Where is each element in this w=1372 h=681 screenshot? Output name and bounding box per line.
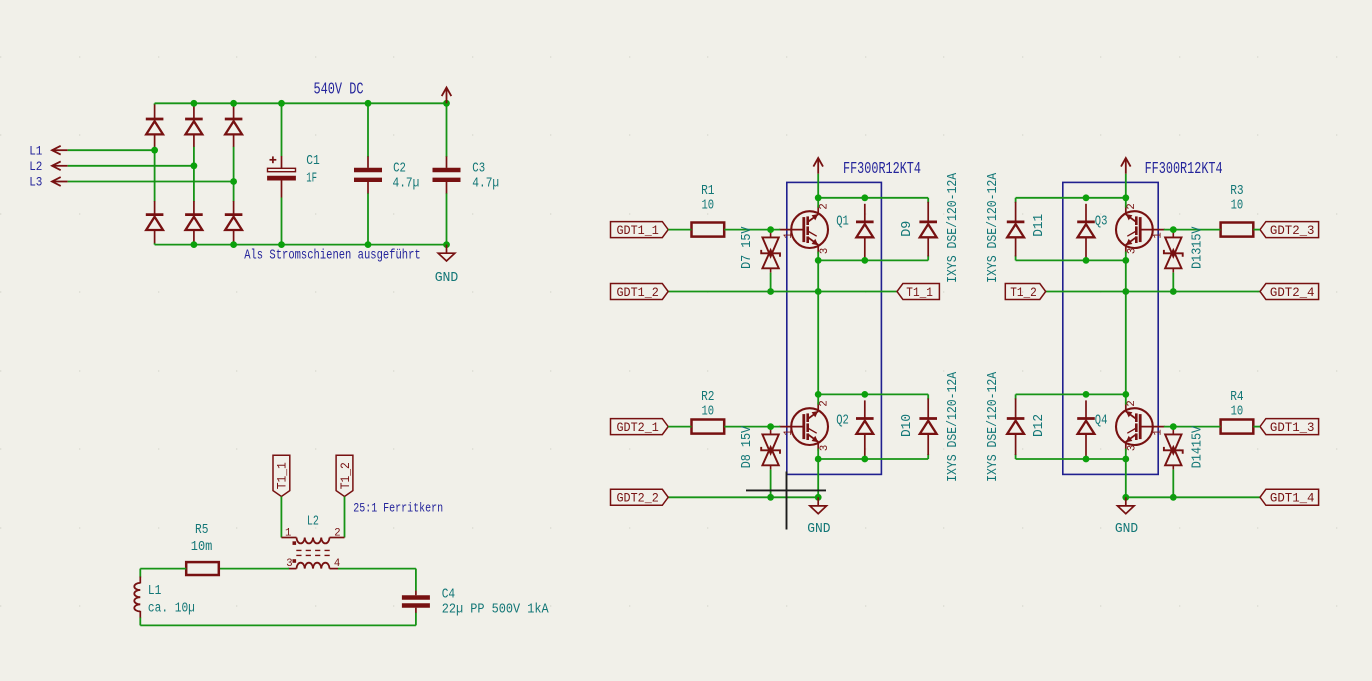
TVS diode D13 <box>1164 230 1183 273</box>
capacitor C3 <box>446 103 448 157</box>
svg-text:2: 2 <box>819 400 831 406</box>
diode D11 <box>1007 202 1025 257</box>
svg-text:2: 2 <box>819 203 831 209</box>
wire bottom loop <box>140 624 416 626</box>
junction emitter upper at IGBT <box>1122 257 1129 264</box>
svg-text:GDT1_3: GDT1_3 <box>1270 420 1315 435</box>
wire bottom bus <box>155 244 447 246</box>
wire L2 <box>68 165 194 167</box>
TVS diode D8 <box>761 427 780 470</box>
svg-text:10m: 10m <box>191 539 213 555</box>
wire emitter rail upper IGBT <box>818 259 928 261</box>
wire emitter net upper IGBT <box>668 291 897 293</box>
wire GDT2_1 to R2 <box>668 426 691 428</box>
svg-text:25:1 Ferritkern: 25:1 Ferritkern <box>353 501 443 515</box>
svg-text:T1_2: T1_2 <box>338 462 353 489</box>
junction collector upper at module diode <box>1083 194 1090 201</box>
svg-text:GND: GND <box>435 270 459 286</box>
transistor Q4 <box>1116 403 1165 451</box>
diode D6 <box>225 201 243 243</box>
node L1 input arrow <box>52 146 68 155</box>
wire left vertical bottom <box>139 611 141 618</box>
wire main vertical between IGBTs <box>1125 260 1127 394</box>
junction collector upper at IGBT <box>1122 194 1129 201</box>
junction emitter net <box>1122 288 1129 295</box>
resistor R5 <box>186 562 219 575</box>
svg-text:C2: C2 <box>393 161 406 177</box>
transformer L2 <box>281 538 344 569</box>
svg-text:FF300R12KT4: FF300R12KT4 <box>1145 159 1223 178</box>
svg-text:L2: L2 <box>307 514 319 530</box>
diode D10 <box>919 398 937 455</box>
hier label T1_2 <box>336 455 353 496</box>
hier label GDT2_2 <box>611 489 669 505</box>
diode D3 <box>225 105 243 147</box>
svg-text:4.7µ: 4.7µ <box>472 176 499 192</box>
junction collector lower at IGBT <box>1122 391 1129 398</box>
svg-text:2: 2 <box>1126 400 1138 406</box>
diode D1 <box>146 105 164 147</box>
TVS diode D7 <box>761 230 780 273</box>
wire collector rail upper IGBT <box>1016 197 1126 199</box>
svg-text:ca. 10µ: ca. 10µ <box>148 600 195 616</box>
graphic line vertical <box>786 472 788 530</box>
wire pin4 to C4 <box>338 568 416 570</box>
wire left of R5 <box>140 568 186 570</box>
hier label GDT2_1 <box>611 419 669 435</box>
junction gnd <box>1122 494 1129 501</box>
svg-text:IXYS DSE/120-12A: IXYS DSE/120-12A <box>945 173 961 283</box>
power flag 540V <box>442 88 452 104</box>
junction collector lower at IGBT <box>815 391 822 398</box>
diode D9 <box>919 202 937 257</box>
wire emitter rail upper IGBT <box>1016 259 1126 261</box>
svg-text:GDT1_4: GDT1_4 <box>1270 491 1315 506</box>
wire main vertical between IGBTs <box>817 260 819 394</box>
wire gate resistor to base lower <box>724 426 780 428</box>
svg-text:540V DC: 540V DC <box>314 80 364 99</box>
svg-text:1: 1 <box>1152 429 1164 435</box>
diode D4 <box>146 201 164 243</box>
junction C1 bottom <box>278 241 285 248</box>
ground GND module <box>810 497 827 513</box>
diode D2 <box>185 105 203 147</box>
junction base lower <box>767 423 774 430</box>
svg-text:GDT1_1: GDT1_1 <box>617 223 659 238</box>
svg-text:T1_1: T1_1 <box>906 285 933 300</box>
junction TVS bottom upper <box>767 288 774 295</box>
svg-text:Q4: Q4 <box>1095 412 1108 428</box>
svg-text:2: 2 <box>334 528 340 540</box>
svg-text:Q3: Q3 <box>1095 214 1108 230</box>
graphic line horizontal <box>746 489 826 491</box>
wire left vertical top <box>139 569 141 578</box>
wire emitter net lower <box>1126 496 1260 498</box>
svg-text:Als Stromschienen ausgeführt: Als Stromschienen ausgeführt <box>244 248 421 264</box>
svg-text:10: 10 <box>702 403 715 419</box>
wire gate resistor to base lower <box>1164 426 1221 428</box>
wire T1_2 to transformer pin 2 <box>344 497 346 538</box>
svg-text:T1_1: T1_1 <box>275 462 290 489</box>
hier label GDT1_3 <box>1260 419 1319 435</box>
junction gnd <box>815 494 822 501</box>
svg-text:3: 3 <box>1126 445 1138 451</box>
svg-text:GDT2_2: GDT2_2 <box>617 491 659 506</box>
node L3 input arrow <box>52 177 68 186</box>
junction C2 bottom <box>365 241 372 248</box>
svg-text:1: 1 <box>783 429 795 435</box>
svg-text:T1_2: T1_2 <box>1010 285 1037 300</box>
node L2 input arrow <box>52 161 68 170</box>
module diode at Q4 <box>1077 400 1095 457</box>
svg-text:GDT1_2: GDT1_2 <box>617 285 659 300</box>
wire emitter to gnd junction <box>817 459 819 497</box>
svg-text:D1415V: D1415V <box>1191 425 1206 468</box>
junction C1 top <box>278 100 285 107</box>
wire left bridge column <box>154 103 156 105</box>
wire stubs of outer diode upper <box>927 198 929 203</box>
junction L2 <box>191 162 198 169</box>
wire R3 to GDT2_3 <box>1253 229 1260 231</box>
capacitor C1 <box>281 103 283 156</box>
svg-text:1: 1 <box>285 528 291 540</box>
diode D5 <box>185 201 203 243</box>
wire L1 <box>68 149 155 151</box>
junction C3 top <box>443 100 450 107</box>
junction TVS bottom lower <box>1170 494 1177 501</box>
svg-text:C4: C4 <box>442 586 455 602</box>
hier label GDT1_1 <box>611 222 669 238</box>
inductor L1 <box>134 583 140 612</box>
wire R4 to GDT1_3 <box>1253 426 1260 428</box>
svg-text:10: 10 <box>1231 403 1244 419</box>
junction L1 <box>151 147 158 154</box>
junction base upper <box>1170 226 1177 233</box>
junction emitter lower at module diode <box>861 456 868 463</box>
svg-text:IXYS DSE/120-12A: IXYS DSE/120-12A <box>945 372 961 482</box>
module diode at Q1 <box>856 204 874 259</box>
svg-text:4.7µ: 4.7µ <box>393 176 420 192</box>
junction bridge bottom col2 <box>191 241 198 248</box>
hier label GDT2_4 <box>1260 284 1319 300</box>
hier label GDT2_3 <box>1260 222 1319 238</box>
transistor Q2 <box>779 403 828 451</box>
TVS diode D14 <box>1164 427 1183 470</box>
svg-text:Q2: Q2 <box>836 412 849 428</box>
junction collector upper at IGBT <box>815 194 822 201</box>
svg-text:10: 10 <box>1231 198 1244 214</box>
svg-text:D1315V: D1315V <box>1191 226 1206 269</box>
wire collector rail upper IGBT <box>818 197 928 199</box>
junction base lower <box>1170 423 1177 430</box>
junction C2 top <box>365 100 372 107</box>
svg-text:IXYS DSE/120-12A: IXYS DSE/120-12A <box>985 173 1001 283</box>
svg-text:FF300R12KT4: FF300R12KT4 <box>843 159 921 178</box>
wire collector rail lower IGBT <box>1016 393 1126 395</box>
junction emitter upper at module diode <box>1083 257 1090 264</box>
wire R5 to transformer pin 3 <box>219 568 289 570</box>
svg-text:GDT2_1: GDT2_1 <box>617 420 659 435</box>
svg-text:1: 1 <box>783 232 795 238</box>
junction emitter lower at IGBT <box>815 456 822 463</box>
resistor R1 <box>692 223 725 237</box>
capacitor C4 <box>402 591 430 613</box>
module diode at Q2 <box>856 400 874 457</box>
wire middle bridge column <box>193 103 195 105</box>
hier label T1_1 <box>897 284 939 300</box>
svg-text:C3: C3 <box>472 161 485 177</box>
wire gate resistor to base <box>724 229 780 231</box>
svg-text:2: 2 <box>1126 203 1138 209</box>
svg-text:L1: L1 <box>148 583 161 599</box>
hier label GDT1_4 <box>1260 489 1319 505</box>
junction bridge bottom col3 <box>230 241 237 248</box>
svg-text:IXYS DSE/120-12A: IXYS DSE/120-12A <box>985 372 1001 482</box>
wire T1_1 to transformer pin 1 <box>280 497 282 538</box>
junction emitter upper at module diode <box>861 257 868 264</box>
svg-text:D12: D12 <box>1031 414 1047 437</box>
svg-text:10: 10 <box>702 198 715 214</box>
wire gate resistor to base <box>1164 229 1221 231</box>
transistor Q3 <box>1116 206 1165 254</box>
junction TVS bottom upper <box>1170 288 1177 295</box>
svg-text:3: 3 <box>1126 248 1138 254</box>
svg-text:L1: L1 <box>29 143 42 158</box>
wire emitter to gnd junction <box>1125 459 1127 497</box>
wire collector rail lower IGBT <box>818 393 928 395</box>
svg-text:22µ PP 500V 1kA: 22µ PP 500V 1kA <box>442 601 549 617</box>
wire top bus 540V DC <box>155 102 447 104</box>
junction collector upper at module diode <box>861 194 868 201</box>
resistor R4 <box>1221 420 1254 434</box>
svg-text:1: 1 <box>1152 232 1164 238</box>
svg-text:L2: L2 <box>29 159 42 174</box>
svg-text:D11: D11 <box>1031 214 1047 237</box>
junction collector lower at module diode <box>1083 391 1090 398</box>
junction emitter lower at IGBT <box>1122 456 1129 463</box>
resistor R3 <box>1221 223 1254 237</box>
module box U2 right FF300R12KT4 <box>1063 182 1158 474</box>
svg-text:GDT2_3: GDT2_3 <box>1270 223 1315 238</box>
junction collector lower at module diode <box>861 391 868 398</box>
power flag module <box>813 158 823 174</box>
wire emitter net upper IGBT <box>1046 291 1260 293</box>
hier label T1_2 <box>1005 284 1045 300</box>
svg-text:L3: L3 <box>29 175 42 190</box>
junction emitter upper at IGBT <box>815 257 822 264</box>
junction TVS bottom lower <box>767 494 774 501</box>
svg-text:C1: C1 <box>306 153 320 169</box>
junction C3 bottom <box>443 241 450 248</box>
ground GND module <box>1118 497 1135 513</box>
svg-text:GND: GND <box>1115 521 1138 537</box>
power flag module <box>1121 158 1131 174</box>
ground GND rectifier <box>438 245 455 261</box>
junction L3 <box>230 178 237 185</box>
wire GDT1_1 to R1 <box>668 229 691 231</box>
junction emitter lower at module diode <box>1083 456 1090 463</box>
svg-text:GDT2_4: GDT2_4 <box>1270 285 1315 300</box>
svg-text:D10: D10 <box>899 414 915 437</box>
module box U1 left FF300R12KT4 <box>787 182 882 474</box>
capacitor C2 <box>367 103 369 157</box>
hier label GDT1_2 <box>611 284 669 300</box>
svg-text:D7 15V: D7 15V <box>740 226 755 269</box>
svg-text:3: 3 <box>819 445 831 451</box>
svg-text:Q1: Q1 <box>836 214 849 230</box>
junction base upper <box>767 226 774 233</box>
module diode at Q3 <box>1077 204 1095 259</box>
junction emitter net <box>815 288 822 295</box>
svg-text:GND: GND <box>807 521 830 537</box>
svg-text:3: 3 <box>819 248 831 254</box>
wire stubs of outer diode upper <box>1015 198 1017 203</box>
junction bridge top col2 <box>191 100 198 107</box>
wire emitter net lower <box>668 496 818 498</box>
svg-text:D9: D9 <box>899 221 915 237</box>
hier label T1_1 <box>273 455 290 496</box>
transistor Q1 <box>779 206 828 254</box>
svg-text:R5: R5 <box>195 522 208 538</box>
resistor R2 <box>692 420 725 434</box>
svg-text:1F: 1F <box>306 170 317 186</box>
svg-text:D8 15V: D8 15V <box>740 425 755 468</box>
wire L3 <box>68 181 234 183</box>
diode D12 <box>1007 398 1025 455</box>
wire right bridge column <box>233 103 235 105</box>
junction bridge top col3 <box>230 100 237 107</box>
